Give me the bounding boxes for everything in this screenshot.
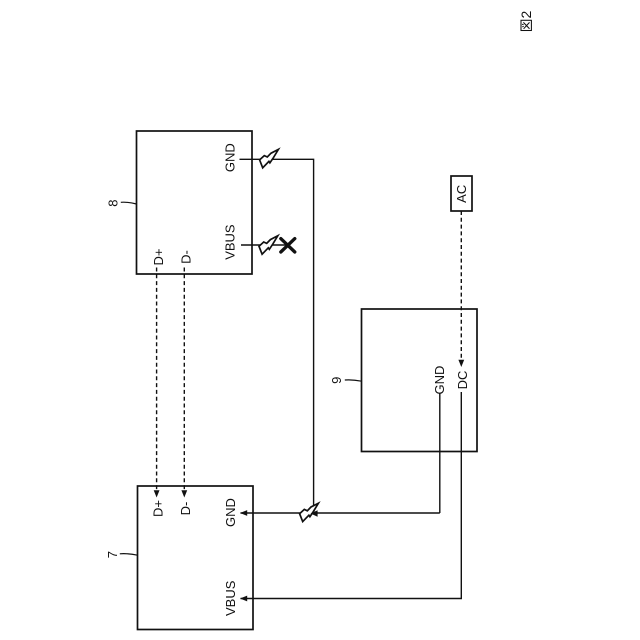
svg-text:2: 2 xyxy=(518,11,534,19)
box 7 (device block 7) xyxy=(138,486,254,630)
box 9 (power adapter block 9) xyxy=(362,309,478,452)
svg-text:GND: GND xyxy=(222,143,237,172)
svg-text:AC: AC xyxy=(454,185,469,203)
X mark (disconnection) on VBUS wire xyxy=(281,239,295,252)
wire DC of box 9 down to VBUS of box 7 xyxy=(241,392,462,599)
surge bolt at GND junction near box 7 xyxy=(300,503,319,521)
arrowhead GND into box 7 xyxy=(240,510,247,516)
arrowhead VBUS into box 7 xyxy=(240,596,247,602)
arrowhead at GND junction pointing toward box 7 xyxy=(311,510,318,517)
wire GND of box 9 (vertical) xyxy=(439,393,441,513)
svg-text:GND: GND xyxy=(432,366,447,395)
wire VBUS of box 8 (cut) xyxy=(241,244,287,246)
svg-text:VBUS: VBUS xyxy=(222,224,237,260)
svg-text:D-: D- xyxy=(178,502,193,516)
svg-text:D+: D+ xyxy=(150,500,165,517)
hand-drawn 図 glyph xyxy=(521,20,531,30)
svg-text:DC: DC xyxy=(455,371,470,390)
wire GND of box 8: horizontal then vertical down to junction xyxy=(240,159,314,513)
svg-text:D-: D- xyxy=(178,250,193,264)
wire D- (dashed) from box 8 to box 7 xyxy=(183,268,185,492)
svg-text:GND: GND xyxy=(223,498,238,527)
leader line for label 9 xyxy=(345,380,362,381)
arrowhead D- into box 7 xyxy=(181,490,187,497)
arrowhead D+ into box 7 xyxy=(154,490,160,497)
svg-text:VBUS: VBUS xyxy=(223,580,238,616)
wire AC to DC (dashed) xyxy=(460,211,462,361)
arrowhead AC into box 9 DC xyxy=(458,360,464,367)
svg-text:D+: D+ xyxy=(151,249,166,266)
leader line for label 8 xyxy=(121,202,137,204)
wire D+ (dashed) from box 8 to box 7 xyxy=(156,268,158,492)
svg-text:9: 9 xyxy=(329,377,344,384)
wire GND: horizontal from box 9 GND down-line to box 7 GND pin xyxy=(241,512,440,514)
box 8 (device block 8) xyxy=(137,131,253,274)
figure title 図2 xyxy=(518,11,534,31)
AC source box xyxy=(451,176,472,211)
svg-text:7: 7 xyxy=(105,551,120,558)
leader line for label 7 xyxy=(120,554,138,556)
surge bolt on VBUS wire of box 8 xyxy=(259,236,278,254)
svg-text:8: 8 xyxy=(105,200,120,207)
surge bolt on GND wire of box 8 xyxy=(260,149,279,167)
